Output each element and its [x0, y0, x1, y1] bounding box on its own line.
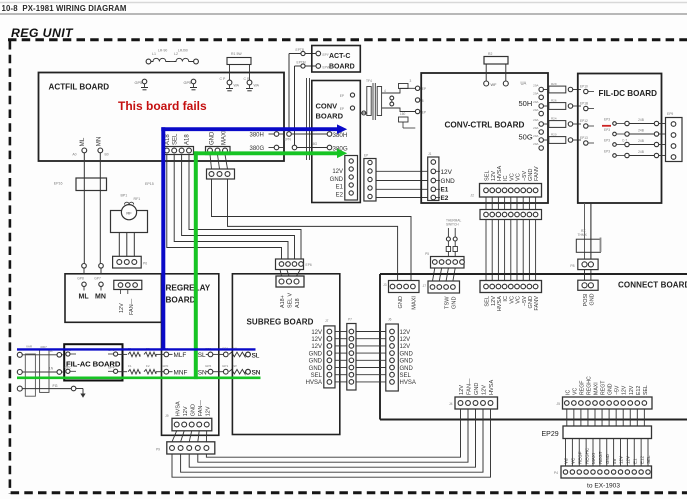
svg-text:J1: J1	[428, 152, 432, 156]
svg-text:R1 5W: R1 5W	[231, 52, 242, 56]
svg-text:GND: GND	[474, 383, 480, 395]
svg-text:P8: P8	[570, 264, 574, 268]
svg-text:12V: 12V	[311, 344, 322, 350]
svg-text:EPY: EPY	[323, 53, 330, 57]
svg-text:CONV-CTRL BOARD: CONV-CTRL BOARD	[445, 120, 525, 129]
svg-text:A18: A18	[185, 134, 191, 145]
svg-text:VC: VC	[571, 457, 576, 464]
svg-text:J4: J4	[449, 402, 453, 406]
svg-text:MNF: MNF	[174, 370, 188, 377]
svg-text:F2: F2	[146, 364, 150, 368]
svg-text:SN: SN	[198, 370, 207, 377]
svg-text:REG UNIT: REG UNIT	[11, 26, 74, 40]
svg-text:POSI: POSI	[583, 294, 589, 307]
svg-text:SEL V: SEL V	[288, 293, 294, 308]
svg-text:A18: A18	[165, 134, 171, 145]
svg-text:LR-90: LR-90	[158, 49, 167, 53]
svg-text:EP12: EP12	[580, 119, 588, 123]
svg-text:E2: E2	[336, 192, 344, 198]
svg-text:SEL: SEL	[311, 373, 323, 379]
svg-text:E1: E1	[441, 186, 449, 193]
svg-text:GND: GND	[309, 351, 323, 357]
svg-text:P9: P9	[156, 448, 160, 452]
svg-text:GND: GND	[190, 404, 196, 416]
svg-text:J5: J5	[556, 402, 560, 406]
svg-text:EP: EP	[422, 87, 426, 91]
svg-text:SEL: SEL	[173, 133, 179, 145]
svg-text:GP5: GP5	[135, 81, 143, 85]
svg-text:ACTFIL BOARD: ACTFIL BOARD	[49, 83, 110, 92]
svg-text:E2: E2	[441, 195, 449, 202]
svg-text:EPTB: EPTB	[296, 48, 305, 52]
svg-text:MN: MN	[95, 294, 106, 301]
svg-text:EP: EP	[422, 110, 426, 114]
svg-text:24B: 24B	[638, 150, 644, 154]
svg-text:12V: 12V	[205, 406, 211, 416]
svg-text:EP3: EP3	[604, 128, 610, 132]
svg-text:RF1: RF1	[134, 197, 141, 201]
svg-text:GP7: GP7	[94, 276, 101, 280]
svg-text:29A: 29A	[533, 84, 538, 88]
svg-text:24B: 24B	[638, 139, 644, 143]
svg-text:SEL: SEL	[485, 296, 491, 307]
svg-text:SUBREG BOARD: SUBREG BOARD	[247, 317, 314, 326]
svg-text:GPC: GPC	[65, 365, 73, 369]
svg-text:CONV: CONV	[316, 102, 338, 111]
svg-text:EP: EP	[340, 107, 344, 111]
svg-text:FAN—: FAN—	[467, 378, 473, 395]
svg-text:BP1: BP1	[121, 194, 128, 198]
svg-text:REGF: REGF	[577, 451, 582, 464]
svg-text:HVSA: HVSA	[175, 401, 181, 416]
svg-text:12V: 12V	[400, 344, 411, 350]
svg-text:BOARD: BOARD	[316, 112, 344, 121]
svg-text:12V: 12V	[626, 456, 631, 464]
svg-text:J3: J3	[383, 283, 387, 287]
svg-text:MN: MN	[96, 137, 103, 147]
svg-text:50H: 50H	[519, 99, 533, 108]
svg-text:THMX: THMX	[578, 233, 588, 237]
svg-text:29A: 29A	[533, 126, 538, 130]
svg-text:WA: WA	[234, 84, 240, 88]
svg-text:12V: 12V	[491, 171, 497, 181]
svg-text:29A: 29A	[533, 92, 538, 96]
svg-text:C P: C P	[220, 77, 227, 81]
svg-text:A0: A0	[72, 153, 76, 157]
svg-text:C-7: C-7	[622, 139, 627, 143]
svg-text:BOARD: BOARD	[329, 64, 355, 71]
svg-text:SN: SN	[252, 370, 261, 377]
svg-text:SWITCH: SWITCH	[446, 222, 459, 226]
svg-text:UA: UA	[521, 81, 527, 86]
svg-text:LRJ90: LRJ90	[178, 49, 188, 53]
svg-text:FANV: FANV	[534, 166, 540, 181]
svg-text:VC: VC	[516, 173, 522, 181]
svg-text:EP1B: EP1B	[580, 102, 588, 106]
svg-text:EP15: EP15	[145, 182, 154, 186]
svg-text:GP5: GP5	[184, 81, 192, 85]
svg-text:GND: GND	[441, 178, 456, 185]
svg-text:12V: 12V	[183, 406, 189, 416]
svg-text:12V: 12V	[332, 169, 343, 175]
svg-text:FAN—: FAN—	[198, 400, 204, 417]
svg-text:GND: GND	[400, 366, 414, 372]
svg-text:GP4: GP4	[108, 365, 115, 369]
svg-text:MAXI: MAXI	[594, 382, 600, 395]
svg-text:GND: GND	[330, 177, 344, 183]
svg-text:C P: C P	[244, 77, 251, 81]
svg-text:EP9: EP9	[667, 112, 673, 116]
svg-text:GND: GND	[528, 296, 534, 308]
svg-text:−5V: −5V	[522, 171, 528, 181]
svg-text:GND: GND	[528, 169, 534, 181]
svg-text:FIL-DC BOARD: FIL-DC BOARD	[599, 89, 658, 98]
svg-text:MAXI: MAXI	[222, 130, 228, 145]
svg-text:4: 4	[384, 89, 386, 93]
svg-text:EP29: EP29	[542, 431, 559, 438]
svg-text:BOARD: BOARD	[166, 295, 196, 304]
svg-text:J7: J7	[423, 284, 427, 288]
svg-text:B0: B0	[105, 153, 109, 157]
svg-text:GP1: GP1	[222, 364, 228, 368]
svg-text:GP8: GP8	[77, 276, 84, 280]
svg-text:ML: ML	[79, 137, 86, 146]
svg-text:12V: 12V	[491, 296, 497, 306]
svg-text:P7: P7	[348, 318, 352, 322]
svg-text:REGT: REGT	[601, 380, 607, 395]
svg-text:IC: IC	[565, 390, 571, 395]
svg-text:3: 3	[410, 79, 412, 83]
svg-text:FAN—: FAN—	[129, 298, 135, 315]
svg-text:SEL: SEL	[646, 455, 651, 464]
svg-text:J6: J6	[388, 318, 392, 322]
svg-text:380G: 380G	[250, 146, 265, 152]
svg-text:GP0: GP0	[162, 364, 168, 368]
svg-text:29A: 29A	[533, 108, 538, 112]
svg-text:380H: 380H	[333, 132, 348, 139]
svg-text:SEL: SEL	[400, 373, 412, 379]
svg-text:R2: R2	[488, 52, 492, 56]
svg-text:GND: GND	[210, 131, 216, 145]
svg-text:29A: 29A	[533, 100, 538, 104]
svg-text:A18+: A18+	[280, 295, 286, 308]
svg-text:P4: P4	[554, 471, 558, 475]
svg-text:GND: GND	[590, 293, 596, 305]
svg-text:EPTM: EPTM	[297, 61, 306, 65]
svg-text:24B: 24B	[638, 129, 644, 133]
svg-text:Vd: Vd	[564, 458, 569, 464]
svg-text:REGRELAY: REGRELAY	[166, 283, 211, 292]
svg-text:GP6: GP6	[205, 364, 211, 368]
svg-text:RF: RF	[126, 211, 132, 216]
svg-text:GND: GND	[452, 297, 458, 309]
svg-text:12V: 12V	[311, 337, 322, 343]
svg-text:HVSA: HVSA	[400, 380, 416, 386]
svg-text:12V: 12V	[400, 330, 411, 336]
svg-text:ML: ML	[79, 294, 90, 301]
svg-text:REGHC: REGHC	[586, 376, 592, 395]
svg-text:REGHC: REGHC	[584, 447, 589, 464]
svg-text:12V: 12V	[119, 303, 125, 313]
svg-text:TF4: TF4	[366, 79, 372, 83]
svg-text:SEL: SEL	[643, 385, 649, 395]
svg-text:GND: GND	[605, 453, 610, 464]
svg-text:R26: R26	[551, 98, 557, 102]
svg-text:HVSA: HVSA	[489, 379, 495, 395]
svg-text:50G: 50G	[519, 133, 533, 142]
svg-text:EP: EP	[364, 154, 368, 158]
svg-text:WF: WF	[491, 83, 498, 87]
svg-text:29A: 29A	[533, 118, 538, 122]
svg-text:VAR: VAR	[26, 345, 33, 349]
svg-text:HVSA: HVSA	[497, 165, 503, 181]
svg-text:HVSA: HVSA	[306, 380, 322, 386]
svg-text:SL: SL	[252, 352, 260, 359]
svg-text:A18: A18	[295, 298, 301, 308]
svg-text:E1: E1	[632, 458, 637, 464]
svg-text:SEL: SEL	[485, 170, 491, 181]
svg-text:FG: FG	[53, 384, 58, 388]
svg-text:IC: IC	[503, 296, 509, 302]
svg-text:EP16: EP16	[54, 182, 63, 186]
svg-text:24B: 24B	[638, 118, 644, 122]
svg-text:J2: J2	[470, 194, 474, 198]
svg-text:GND: GND	[309, 359, 323, 365]
svg-text:L60: L60	[400, 112, 406, 116]
svg-text:FANV: FANV	[534, 296, 540, 311]
svg-text:EP3: EP3	[604, 118, 610, 122]
svg-text:12V: 12V	[441, 169, 453, 176]
svg-text:EPN: EPN	[284, 138, 291, 142]
svg-text:12V: 12V	[400, 337, 411, 343]
svg-text:WA: WA	[254, 84, 260, 88]
svg-text:12V: 12V	[311, 330, 322, 336]
svg-text:REGF: REGF	[579, 381, 585, 395]
svg-text:E12: E12	[639, 455, 644, 464]
svg-text:10-8 PX-1981 WIRING DIAGRAM: 10-8 PX-1981 WIRING DIAGRAM	[2, 4, 127, 13]
svg-text:This board fails: This board fails	[118, 99, 207, 113]
svg-text:J9: J9	[165, 414, 169, 418]
svg-text:5V: 5V	[612, 458, 617, 464]
svg-text:ACT-C: ACT-C	[329, 53, 350, 60]
svg-text:HVSA: HVSA	[497, 296, 503, 312]
svg-text:L1: L1	[152, 52, 156, 56]
svg-text:E1: E1	[336, 185, 344, 191]
svg-text:12V: 12V	[622, 385, 628, 395]
svg-text:1N: 1N	[49, 366, 54, 370]
svg-text:R29: R29	[551, 82, 557, 86]
svg-text:VC: VC	[572, 388, 578, 395]
svg-text:to EX-1903: to EX-1903	[587, 483, 620, 490]
svg-text:12V: 12V	[482, 385, 488, 395]
svg-text:CONNECT BOARD: CONNECT BOARD	[618, 280, 687, 289]
svg-text:MAXI: MAXI	[591, 453, 596, 464]
svg-text:GND: GND	[608, 383, 614, 395]
svg-text:EPW: EPW	[323, 66, 330, 70]
svg-text:29A: 29A	[533, 142, 538, 146]
svg-text:J7: J7	[325, 319, 329, 323]
svg-text:VC: VC	[516, 296, 522, 304]
svg-text:VC: VC	[509, 296, 515, 304]
svg-text:MAXI: MAXI	[412, 296, 418, 310]
svg-text:VC: VC	[509, 173, 515, 181]
svg-text:EP3: EP3	[604, 139, 610, 143]
svg-text:29A: 29A	[533, 134, 538, 138]
svg-text:GND: GND	[400, 351, 414, 357]
svg-text:E12: E12	[636, 386, 642, 395]
svg-text:F1: F1	[128, 364, 132, 368]
svg-text:12V: 12V	[459, 385, 465, 395]
svg-text:P5: P5	[425, 252, 429, 256]
svg-text:EP13: EP13	[580, 136, 588, 140]
svg-text:380H: 380H	[250, 133, 264, 139]
svg-text:EP: EP	[340, 94, 344, 98]
svg-text:SL: SL	[198, 352, 206, 359]
svg-text:TSW: TSW	[445, 296, 451, 309]
svg-text:GND: GND	[309, 366, 323, 372]
svg-text:MLF: MLF	[174, 352, 187, 359]
svg-text:EP10: EP10	[580, 85, 588, 89]
svg-text:−5V: −5V	[522, 296, 528, 306]
svg-text:12V: 12V	[619, 456, 624, 464]
svg-text:R24: R24	[551, 116, 557, 120]
svg-text:GND: GND	[398, 296, 404, 308]
svg-text:EP3: EP3	[604, 150, 610, 154]
svg-text:IC: IC	[503, 175, 509, 181]
svg-text:R20: R20	[551, 132, 557, 136]
svg-text:P6: P6	[143, 262, 147, 266]
svg-text:REGT: REGT	[598, 451, 603, 464]
svg-text:−5V: −5V	[615, 385, 621, 395]
svg-text:12V: 12V	[629, 385, 635, 395]
svg-text:EP6: EP6	[306, 263, 312, 267]
svg-text:GND: GND	[400, 359, 414, 365]
